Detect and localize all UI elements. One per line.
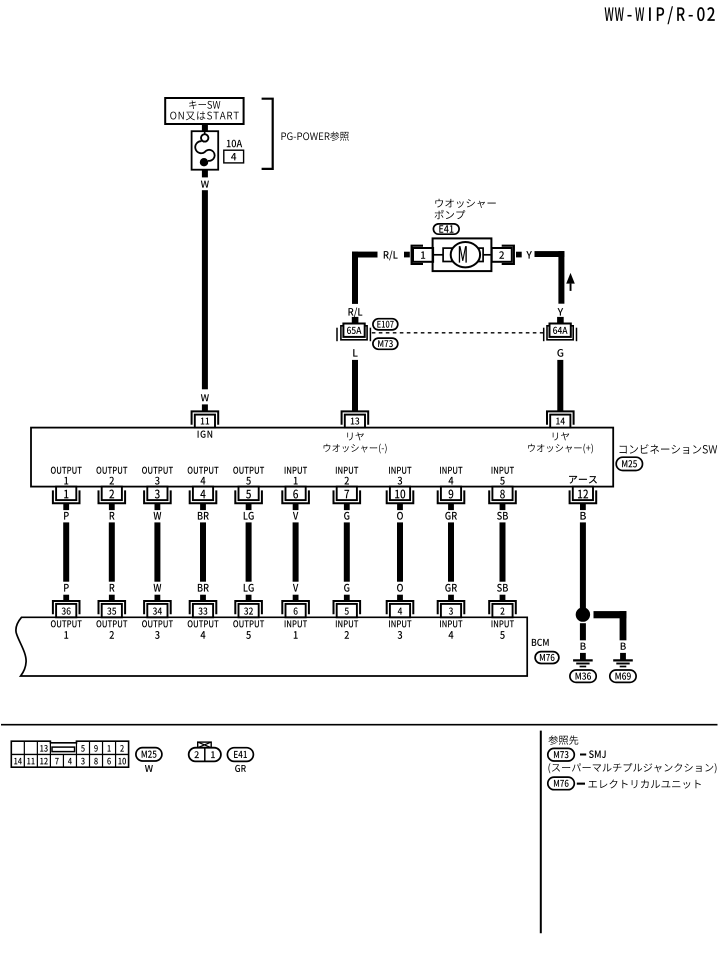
motor brush left	[434, 248, 452, 261]
OUTPUT 1 label (SW)	[51, 467, 82, 485]
wire Y corner right	[535, 251, 565, 304]
wire color GR upper (INPUT 4)	[445, 512, 457, 520]
BCM box M76	[16, 617, 527, 676]
wire stub BCM pin 3	[448, 595, 454, 602]
wire BR (OUTPUT 4)	[200, 522, 206, 581]
wire V (INPUT 1)	[293, 522, 299, 581]
connector label M25	[616, 457, 642, 470]
wire stub BCM pin 36	[63, 595, 69, 602]
wire stub ground M36	[580, 653, 586, 660]
connector label M25 legend	[136, 748, 162, 761]
wire color Y pump	[526, 251, 532, 259]
wire stub pin 4	[200, 503, 206, 510]
wire color R upper (OUTPUT 2)	[110, 512, 115, 520]
wire color W legend	[145, 765, 153, 772]
SMJ terminal 65A	[337, 324, 370, 342]
IGN label	[198, 431, 213, 438]
wire color GR lower (INPUT 4)	[445, 584, 457, 592]
wire color W lower	[201, 394, 209, 401]
wire stub BCM pin 32	[246, 595, 252, 602]
reference M76	[548, 777, 701, 790]
BCM pin 3	[438, 601, 465, 617]
OUTPUT 4 label (BCM)	[188, 620, 219, 639]
direction arrow up	[566, 273, 575, 291]
pin 2 OUTPUT 2	[99, 487, 126, 504]
wire G (INPUT 2)	[344, 522, 350, 581]
wire R/L corner left	[352, 252, 378, 304]
OUTPUT 5 label (SW)	[233, 467, 264, 485]
wire stub keySW-fuse	[202, 124, 208, 131]
pin 12 ground	[570, 487, 597, 504]
wire B below junction	[580, 623, 586, 640]
wire stub pin 6	[293, 503, 299, 510]
wire L to pin 13	[352, 360, 358, 412]
wire color W lower (OUTPUT 3)	[154, 584, 162, 592]
wire color W upper (OUTPUT 3)	[154, 512, 162, 520]
INPUT 3 label (SW)	[389, 467, 411, 485]
connector label E41 legend	[227, 748, 253, 762]
wire stub BCM pin 34	[155, 595, 161, 602]
SMJ terminal 64A	[544, 324, 577, 342]
connector label M73	[373, 338, 398, 349]
pin 5 OUTPUT 5	[235, 487, 262, 504]
title WW-WIP/R-02	[605, 6, 715, 24]
PG-POWER label	[281, 131, 348, 140]
rear washer plus label	[528, 432, 593, 453]
fuse symbol	[195, 131, 214, 166]
ground symbol M36	[573, 660, 593, 666]
junction dot	[576, 607, 590, 621]
motor brush right	[475, 248, 491, 261]
pin 14 rear washer plus	[547, 411, 574, 427]
wire G to pin 14	[557, 360, 563, 412]
wire B ground	[580, 522, 586, 608]
BCM pin 6	[282, 601, 309, 617]
INPUT 3 label (BCM)	[389, 620, 411, 639]
pin 8 INPUT 5	[489, 487, 516, 504]
wire color P lower (OUTPUT 1)	[64, 584, 69, 592]
BCM pin 4	[387, 601, 414, 617]
wire color P upper (OUTPUT 1)	[64, 512, 69, 520]
wire color V upper (INPUT 1)	[293, 512, 298, 520]
wire color O lower (INPUT 3)	[397, 584, 403, 592]
wire color G	[557, 349, 563, 357]
wire color B left ground	[581, 643, 586, 650]
ground pin label	[569, 476, 597, 484]
washer pump label	[435, 199, 496, 220]
INPUT 1 label (SW)	[285, 467, 307, 485]
PG-POWER bracket	[262, 99, 273, 169]
fuse rating 10A	[227, 140, 242, 148]
wire stub pin 3	[155, 503, 161, 510]
pin 1 OUTPUT 1	[53, 487, 80, 504]
BCM pin 35	[99, 601, 126, 617]
pin 4 OUTPUT 4	[190, 487, 217, 504]
reference M73	[548, 748, 606, 761]
pin 11 IGN	[192, 411, 219, 427]
wire color LG lower (OUTPUT 5)	[244, 584, 254, 592]
OUTPUT 3 label (SW)	[142, 467, 173, 485]
wire color B right ground	[621, 643, 626, 650]
ground label M36	[570, 670, 596, 682]
OUTPUT 3 label (BCM)	[142, 620, 173, 639]
wire color GR legend	[235, 765, 246, 772]
wire stub ground M69	[620, 653, 626, 660]
key switch box	[165, 98, 243, 124]
BCM name	[532, 639, 549, 646]
fuse 10A box	[192, 131, 219, 170]
reference SMJ note	[548, 763, 716, 773]
wire stub pin 2	[109, 503, 115, 510]
wire stub pin 8	[500, 503, 506, 510]
wire color BR lower (OUTPUT 4)	[198, 584, 209, 592]
wire stub pin 7	[344, 503, 350, 510]
BCM pin 5	[334, 601, 361, 617]
wire stub BCM pin 33	[200, 595, 206, 602]
wire color Y above 64A	[558, 308, 564, 316]
wire color L	[353, 349, 357, 357]
wire O (INPUT 3)	[397, 522, 403, 581]
pin 13 rear washer minus	[342, 411, 369, 427]
wire SB (INPUT 5)	[500, 522, 506, 581]
wire P (OUTPUT 1)	[63, 522, 69, 581]
wire stub pin 10	[397, 503, 403, 510]
OUTPUT 5 label (BCM)	[233, 620, 264, 639]
ground symbol M69	[613, 660, 633, 666]
INPUT 2 label (SW)	[336, 467, 358, 485]
combination SW name	[620, 444, 718, 454]
fuse number box 4	[224, 150, 244, 163]
wire LG (OUTPUT 5)	[246, 522, 252, 581]
pin 3 OUTPUT 3	[144, 487, 171, 504]
INPUT 4 label (BCM)	[440, 620, 462, 638]
wire stub pin 1	[404, 252, 410, 258]
wire stub below fuse	[202, 170, 208, 178]
connector E41 pin layout	[189, 742, 221, 761]
wire stub BCM pin 35	[109, 595, 115, 602]
wire stub pin 2	[516, 252, 522, 258]
wire color R/L pump	[384, 250, 398, 260]
wire stub pin 12	[580, 503, 586, 510]
wire color SB lower (INPUT 5)	[497, 584, 508, 592]
connector label E41	[433, 224, 459, 234]
wire color LG upper (OUTPUT 5)	[244, 512, 254, 520]
rear washer minus label	[324, 432, 387, 453]
wire stub BCM pin 6	[293, 595, 299, 602]
wire color G upper (INPUT 2)	[344, 512, 349, 520]
connector M25 pin layout	[11, 741, 128, 767]
wire stub pin 1	[63, 503, 69, 510]
wire color G lower (INPUT 2)	[344, 584, 349, 592]
pin 10 INPUT 3	[387, 487, 414, 504]
wire stub above pin 11	[202, 404, 208, 411]
motor M symbol	[451, 242, 480, 267]
OUTPUT 1 label (BCM)	[51, 620, 82, 639]
wire color SB upper (INPUT 5)	[497, 512, 508, 520]
wire color R lower (OUTPUT 2)	[110, 584, 115, 592]
wire GR (INPUT 4)	[448, 522, 454, 581]
BCM pin 32	[235, 601, 262, 617]
wire W (OUTPUT 3)	[154, 522, 160, 581]
connector label M76	[535, 652, 559, 664]
BCM pin 34	[144, 601, 171, 617]
combination switch box M25	[31, 428, 613, 487]
wire color BR upper (OUTPUT 4)	[198, 512, 209, 520]
wire color W upper	[201, 181, 209, 188]
pump pin 1 box	[413, 248, 433, 262]
OUTPUT 4 label (SW)	[188, 467, 219, 485]
OUTPUT 2 label (BCM)	[96, 620, 127, 639]
INPUT 5 label (BCM)	[492, 620, 514, 639]
separator line	[1, 724, 718, 726]
wire R (OUTPUT 2)	[109, 522, 115, 581]
wire color O upper (INPUT 3)	[397, 512, 403, 520]
BCM pin 36	[53, 601, 80, 617]
INPUT 1 label (BCM)	[285, 620, 307, 638]
pump pin 1 bracket	[412, 246, 423, 264]
reference divider line	[540, 731, 542, 934]
connector label E107	[373, 319, 398, 330]
pump pin 2 bracket	[502, 246, 514, 264]
wire stub BCM pin 4	[397, 595, 403, 602]
dashed wire 65A-64A	[372, 332, 544, 334]
wire stub pin 9	[448, 503, 454, 510]
wire stub pin 5	[246, 503, 252, 510]
BCM pin 33	[190, 601, 217, 617]
pin 9 INPUT 4	[438, 487, 465, 504]
wire B branch right	[594, 611, 627, 640]
wire W fuse to pin 11	[202, 190, 208, 389]
pin 7 INPUT 2	[334, 487, 361, 504]
wire color V lower (INPUT 1)	[293, 584, 298, 592]
INPUT 2 label (BCM)	[336, 620, 358, 638]
INPUT 5 label (SW)	[492, 467, 514, 485]
INPUT 4 label (SW)	[440, 467, 462, 485]
reference heading	[548, 735, 578, 744]
wire stub above 65A	[352, 317, 359, 324]
BCM pin 2	[489, 601, 516, 617]
wire stub BCM pin 2	[500, 595, 506, 602]
pin 6 INPUT 1	[282, 487, 309, 504]
washer pump motor box	[433, 238, 492, 271]
pump pin 2 box	[492, 248, 512, 262]
wire color R/L above 65A	[348, 307, 362, 317]
ground label M69	[610, 670, 636, 682]
OUTPUT 2 label (SW)	[96, 467, 127, 485]
wire stub above 64A	[557, 317, 564, 324]
wire color B	[580, 512, 585, 520]
wire stub BCM pin 5	[344, 595, 350, 602]
